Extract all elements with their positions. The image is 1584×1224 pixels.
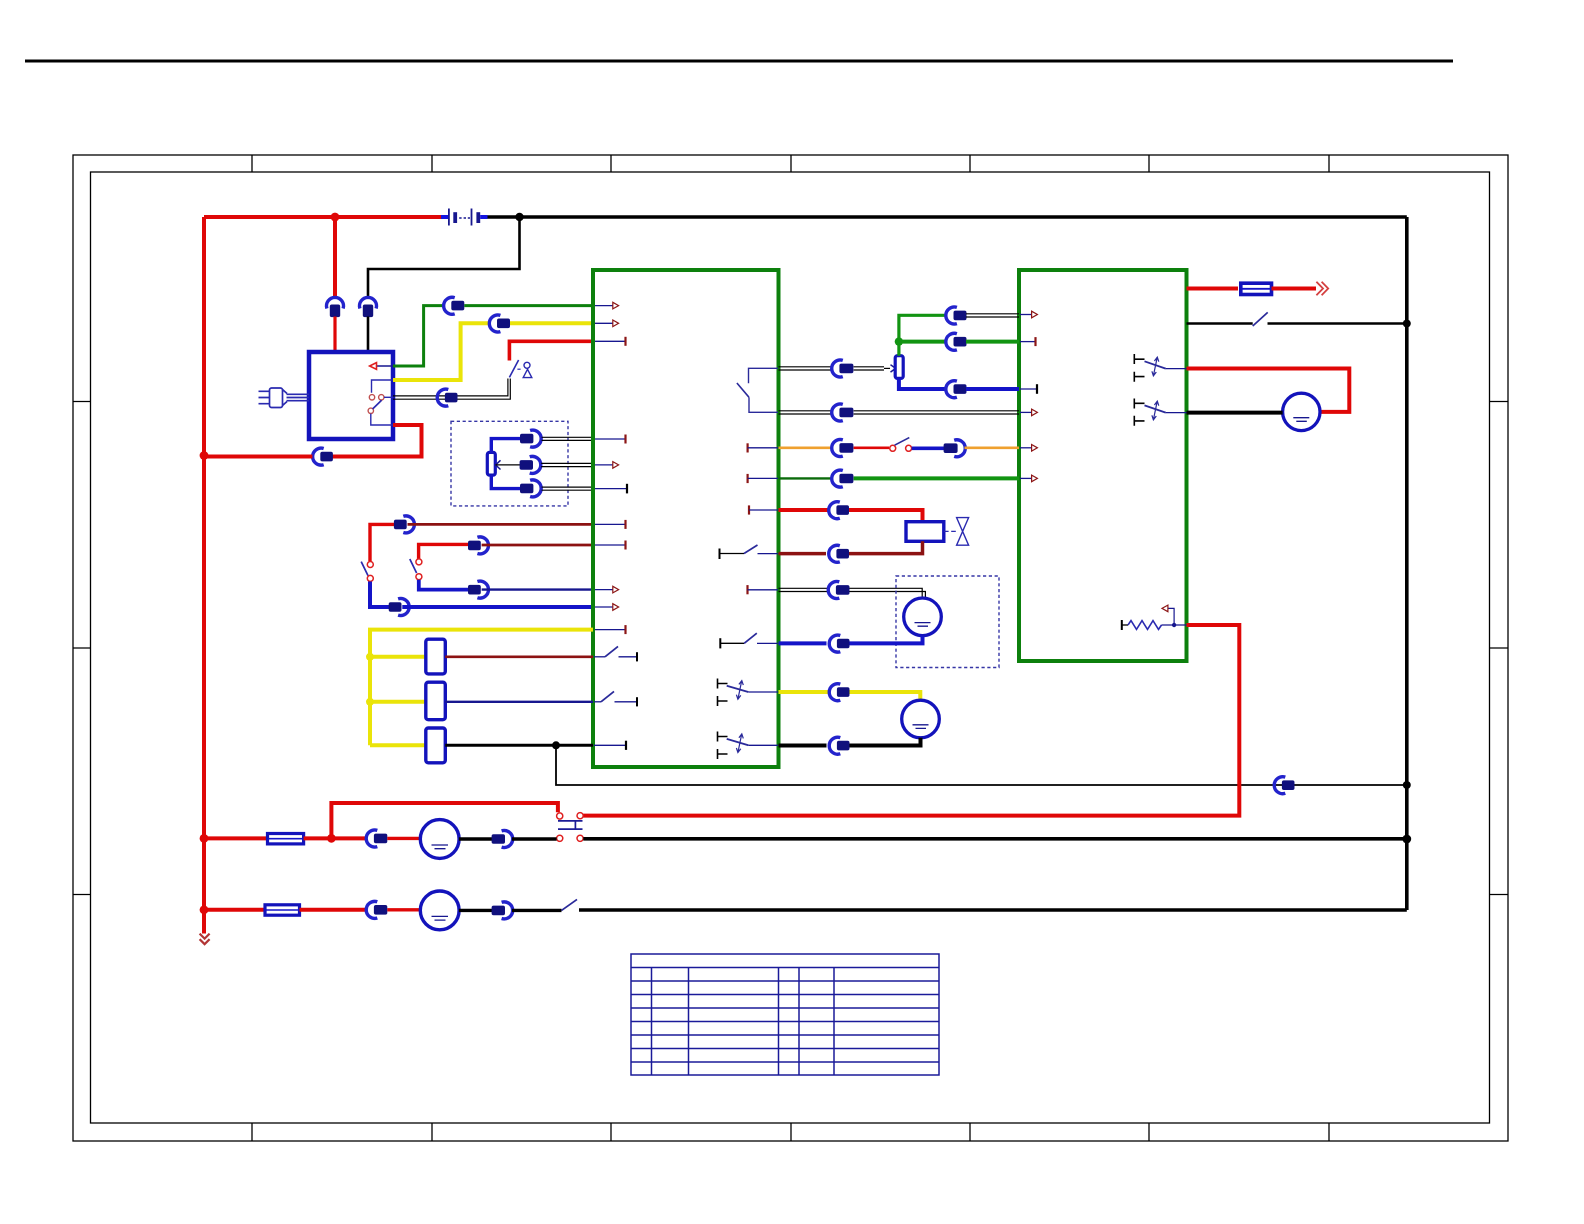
wire black top bus xyxy=(488,215,1407,219)
connector maroon row553 xyxy=(829,545,849,562)
wire black lamp2 return xyxy=(850,738,921,746)
pin arrow timer row448 xyxy=(1020,445,1037,452)
wire orange row448 to timer xyxy=(965,446,1020,449)
node yellow junction 1 xyxy=(366,653,374,661)
wire red between connectors row448 xyxy=(854,446,889,449)
wire maroon relay1 to programmer xyxy=(445,655,593,658)
pin arrow row464 xyxy=(595,462,619,469)
wire green row341 to timer xyxy=(966,340,1019,344)
pin arrow row305 xyxy=(595,302,619,309)
pin arrow timer row314 xyxy=(1020,311,1037,318)
wire yellow row692 xyxy=(779,690,829,694)
connector pot top xyxy=(520,430,541,447)
wire red left bus vertical xyxy=(202,217,206,934)
wire green pot2 top xyxy=(899,315,946,355)
wire pair pot top to programmer xyxy=(542,437,593,440)
node black junction right mid xyxy=(1403,781,1411,789)
connector row589 xyxy=(828,582,849,599)
changeover switch wiper rows368-412 xyxy=(737,368,778,412)
switch S4 row448 xyxy=(890,438,912,452)
connector blue row643 xyxy=(829,635,849,652)
pin tbar black row488 xyxy=(595,484,627,494)
connector motor2 left xyxy=(366,901,387,918)
connector wiper row368 xyxy=(832,360,854,377)
connector selector 2 output xyxy=(468,537,488,554)
wire green mains to programmer xyxy=(393,306,444,366)
wire red fuse3 to connector xyxy=(300,908,367,912)
thermal switch TS2 in timer xyxy=(1134,399,1186,426)
pin tbar row589 right edge xyxy=(748,585,779,594)
connector on pair wire xyxy=(437,389,457,406)
wire navy row448 xyxy=(912,446,944,450)
wire black drop to mains box xyxy=(368,217,520,297)
connector orange row448 left xyxy=(832,440,854,457)
node black junction relay3 xyxy=(552,741,560,749)
connector pot bottom xyxy=(520,480,541,497)
node black junction right lower xyxy=(1402,835,1411,844)
pin tbar black timer row389 xyxy=(1020,384,1037,394)
wire navy to programmer edge row590 xyxy=(482,588,593,590)
wire orange row448 left xyxy=(779,446,832,449)
wire blue row643 to programmer xyxy=(779,641,827,645)
wire red output to left bus xyxy=(204,455,312,459)
wire red to motor1 xyxy=(387,837,421,840)
pin tbar row524 xyxy=(595,520,626,529)
pin tbar timer row341 xyxy=(1020,337,1036,346)
wire black neutral return mid xyxy=(556,745,1407,785)
wire pair pot bottom to programmer xyxy=(542,487,593,490)
resistor R3 in timer xyxy=(1122,605,1187,630)
node red junction left row1 xyxy=(200,834,209,843)
connector on black drop xyxy=(360,297,377,317)
pin arrow timer row478 xyxy=(1020,475,1037,482)
lamp L2 xyxy=(902,700,940,738)
pin arrow timer row412 xyxy=(1020,409,1037,416)
pin arrow row607 xyxy=(595,604,619,611)
connector motor1 left xyxy=(366,830,387,847)
wire red selector branch 1 xyxy=(370,524,395,561)
wire blue selector2 lower xyxy=(419,580,469,590)
wire red heater return xyxy=(583,625,1239,816)
wire black motor1 out xyxy=(459,837,492,840)
switch row657 inside programmer xyxy=(594,646,637,661)
switch S1 door (manual) xyxy=(509,360,531,378)
pin tbar row545 xyxy=(595,541,626,550)
wire red selector branch 2 xyxy=(419,544,469,559)
wire blue pot2 bottom xyxy=(899,378,946,389)
wire yellow stub relay1 xyxy=(370,655,426,659)
wire red fuse to offpage xyxy=(1272,287,1317,291)
connector green row315 xyxy=(946,307,967,324)
connector green row341 xyxy=(946,333,967,350)
wire red to motor2 xyxy=(387,908,421,911)
node red junction left row2 xyxy=(200,905,209,914)
connector black row745 xyxy=(829,737,849,754)
wire navy relay2 to programmer xyxy=(445,701,593,703)
thermal switch row745 inside programmer xyxy=(718,732,779,760)
switch S2 selector 1 xyxy=(361,562,373,582)
wire red mains box output xyxy=(333,425,422,457)
wire black lamp3 left xyxy=(1187,411,1283,415)
pressure sensor dotted enclosure xyxy=(451,421,568,506)
off-page arrow red bottom xyxy=(200,934,210,945)
pin tbar row745 inside programmer xyxy=(594,741,626,750)
wire blue selector1 lower xyxy=(370,582,390,608)
wire black row323 to right bus xyxy=(1268,322,1407,325)
potentiometer R1 xyxy=(487,439,520,489)
wire red to solenoid coil xyxy=(849,510,923,522)
pin tbar row629 xyxy=(595,625,626,634)
wire pair row589 left xyxy=(779,588,829,591)
relay K2 xyxy=(426,682,446,720)
wire yellow heater bus xyxy=(370,630,593,746)
wire maroon row553 to programmer xyxy=(779,552,827,556)
connector orange row448 right xyxy=(944,440,966,457)
node black junction top xyxy=(515,213,523,221)
connector motor2 right xyxy=(492,902,513,919)
pin arrow row323 xyxy=(595,320,619,327)
pin tbar row341 xyxy=(595,337,626,346)
node red junction top xyxy=(331,213,340,222)
fuse F1 xyxy=(1241,283,1272,294)
pin arrow mains live xyxy=(370,363,393,370)
wire yellow to programmer edge xyxy=(510,321,593,325)
wire black timer row323 xyxy=(1187,322,1253,325)
pin tbar row478 right edge xyxy=(748,474,778,483)
connector on neutral return xyxy=(1274,777,1294,794)
connector row412 xyxy=(832,404,854,421)
connector selector1 lower xyxy=(389,599,409,616)
wire red lamp3 feed xyxy=(1187,369,1350,412)
node red junction left mid xyxy=(200,451,209,460)
wire black relay3 to programmer xyxy=(445,744,593,747)
connector on red output xyxy=(313,448,333,465)
connector on red drop xyxy=(326,297,343,317)
node red junction row1 xyxy=(327,834,336,843)
wire black row745 to programmer xyxy=(779,744,827,748)
wire blue to programmer edge row607 xyxy=(402,605,593,609)
wire maroon solenoid return xyxy=(849,541,923,553)
wire black motor2 out xyxy=(459,909,492,912)
pin tbar row439 xyxy=(595,435,626,444)
wire pair row412 left xyxy=(779,411,833,414)
mains input box xyxy=(309,352,393,439)
wire red battery feed top xyxy=(204,215,441,219)
lamp L1 xyxy=(904,598,942,636)
wire black motor2 return bus xyxy=(579,908,1407,912)
lamp L3 xyxy=(1283,393,1320,430)
wire red drop lower xyxy=(333,317,336,354)
pushbutton contact upper xyxy=(557,813,584,820)
connector yellow row692 xyxy=(829,684,849,701)
fuse F2 xyxy=(268,834,304,844)
wire green row478 to timer xyxy=(854,476,1019,480)
node yellow junction 2 xyxy=(366,698,374,706)
wire yellow stub relay2 xyxy=(370,700,426,704)
wire yellow stub relay3 xyxy=(370,743,426,747)
wire dark green row478 left xyxy=(779,477,832,479)
switch row643 inside programmer xyxy=(720,633,778,648)
wire red drop to mains box xyxy=(333,217,337,297)
title block table xyxy=(631,954,939,1075)
pin tbar row448 right edge xyxy=(748,443,778,452)
pushbutton link xyxy=(558,821,583,829)
connector blue row389 xyxy=(946,381,967,398)
lamp dotted enclosure xyxy=(896,576,999,668)
connector motor1 right xyxy=(492,831,513,848)
wire red timer fuse feed xyxy=(1187,287,1239,291)
pin tbar row510 right edge xyxy=(749,505,778,514)
relay K3 xyxy=(426,728,446,763)
motor M1 xyxy=(420,820,459,859)
wire black to pushbutton xyxy=(512,837,557,840)
wire green row341 xyxy=(899,340,946,344)
switch S6 xyxy=(562,899,578,910)
motor M2 xyxy=(420,891,459,930)
wire pair wiper to pot2 xyxy=(854,365,896,372)
connector selector2 lower xyxy=(468,581,488,598)
wire blue row389 to timer xyxy=(966,387,1019,391)
thermal switch TS1 in timer xyxy=(1134,354,1186,382)
wire red motor2 row xyxy=(204,908,265,912)
pin arrow row589 xyxy=(595,586,619,593)
connector on green wire xyxy=(444,297,465,314)
wire pair row589 to lamp1 xyxy=(850,588,926,598)
connector green row478 xyxy=(832,470,854,487)
switch inside mains box xyxy=(368,380,393,425)
wire yellow mains to programmer xyxy=(393,323,490,380)
relay K1 xyxy=(426,639,446,674)
wire red door switch feed xyxy=(509,341,593,360)
wire red pushbutton feed xyxy=(331,803,558,838)
wire black right bus vertical xyxy=(1405,217,1409,910)
timer module box (right green) xyxy=(1019,270,1187,661)
programmer module box (left green) xyxy=(593,270,779,767)
wire maroon selector2 to programmer xyxy=(482,544,593,547)
valve symbol xyxy=(944,518,969,546)
node black junction right upper xyxy=(1403,320,1411,328)
wire black motor1 return bus xyxy=(583,837,1407,841)
connector on yellow wire xyxy=(489,315,510,332)
fuse F3 xyxy=(265,905,300,915)
off-page arrow chevrons xyxy=(1316,282,1328,295)
switch S5 row323 xyxy=(1253,312,1268,326)
wire pair row315 to timer xyxy=(966,314,1019,317)
wire black to switch S6 xyxy=(512,909,562,912)
connector selector 1 output xyxy=(394,516,414,533)
switch row553 inside programmer xyxy=(720,545,779,559)
thermal switch row692 inside programmer xyxy=(718,679,779,707)
switch row702 inside programmer xyxy=(594,691,637,706)
wire pair row412 to timer xyxy=(854,411,1019,414)
solenoid valve coil Y1 xyxy=(906,522,944,542)
wire blue lamp1 return xyxy=(850,636,923,644)
wire black drop lower xyxy=(367,317,370,354)
battery B1 xyxy=(441,209,488,226)
wire yellow to lamp2 xyxy=(850,692,921,701)
wire red fuse2 to junction xyxy=(304,836,366,840)
wire green to programmer edge xyxy=(464,304,593,307)
wire red motor1 row xyxy=(204,836,268,840)
potentiometer R2 xyxy=(895,356,903,379)
switch S3 selector 2 xyxy=(410,559,422,580)
node green junction xyxy=(895,337,903,345)
wire pair wiper row368 xyxy=(779,367,833,370)
plug P1 xyxy=(259,388,310,408)
wire pair pot wiper to programmer xyxy=(541,463,593,466)
wire maroon selector1 to programmer xyxy=(408,523,594,526)
wire red row510 xyxy=(779,508,830,512)
wire pair door switch to mains box xyxy=(393,379,510,400)
connector pot wiper xyxy=(520,456,541,473)
connector red row510 xyxy=(829,502,849,519)
pushbutton contact lower xyxy=(557,835,584,841)
